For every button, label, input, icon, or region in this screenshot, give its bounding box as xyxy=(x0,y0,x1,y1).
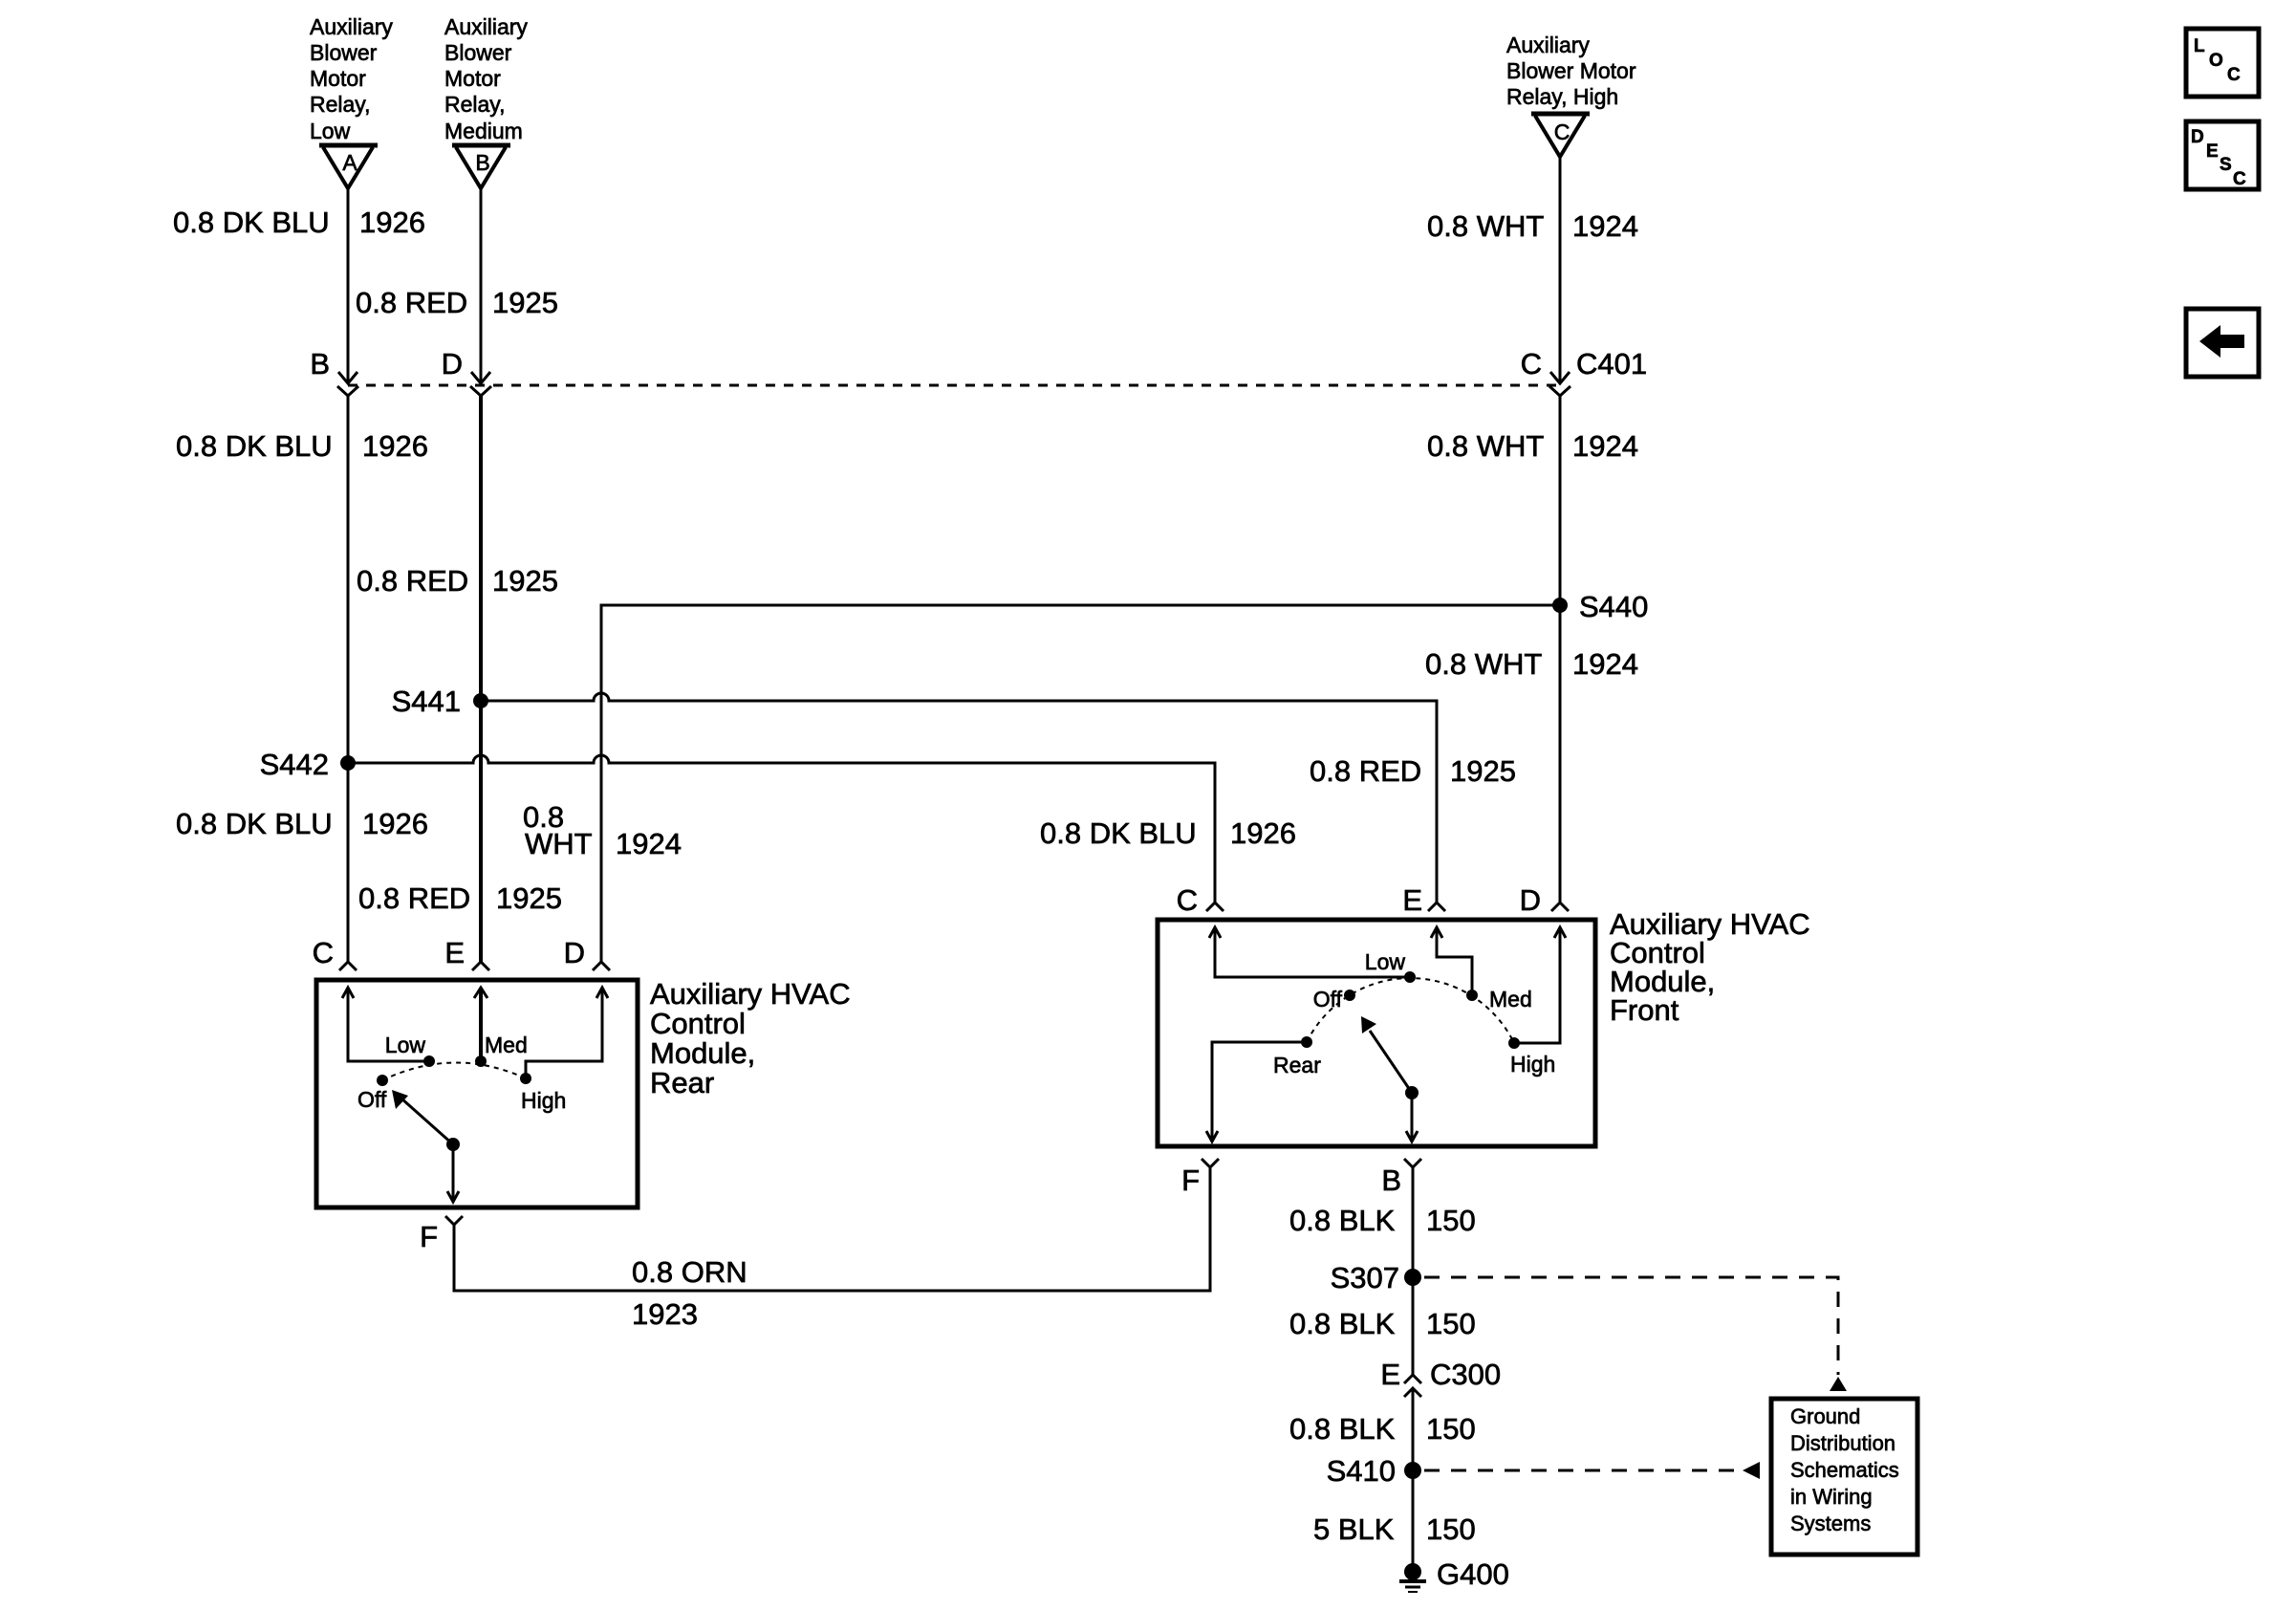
svg-text:S442: S442 xyxy=(260,748,329,781)
C401 chevron wire B xyxy=(470,386,491,396)
svg-text:Off: Off xyxy=(357,1087,387,1112)
svg-text:B: B xyxy=(310,347,330,381)
wire C segment 2 (C401 to right module pin D) xyxy=(1559,396,1562,903)
wire label 0.8 WHT 1924 xyxy=(1427,429,1638,463)
wire label 0.8 BLK 150 xyxy=(1289,1307,1476,1340)
svg-text:Auxiliary: Auxiliary xyxy=(310,14,393,39)
svg-text:Blower: Blower xyxy=(444,40,512,65)
wire label 0.8 WHT 1924 (below S440) xyxy=(1425,647,1638,681)
svg-text:C300: C300 xyxy=(1430,1358,1501,1391)
svg-text:0.8 RED: 0.8 RED xyxy=(1310,754,1421,788)
svg-text:0.8 RED: 0.8 RED xyxy=(358,881,470,915)
svg-text:Rear: Rear xyxy=(1273,1053,1321,1077)
wire A segment 2 (C401 to module pin C) xyxy=(347,396,350,962)
wire label 0.8 RED 1925 (S441 branch) xyxy=(1310,754,1516,788)
svg-text:O: O xyxy=(2209,51,2223,71)
svg-text:S410: S410 xyxy=(1327,1454,1396,1488)
Rear wire to pin F (right) xyxy=(1212,1042,1307,1141)
pin chevron B (right module) xyxy=(1404,1159,1421,1167)
svg-text:Low: Low xyxy=(310,119,351,143)
splice S410 xyxy=(1404,1462,1421,1479)
svg-text:1924: 1924 xyxy=(616,827,682,860)
wire label 0.8 RED 1925 xyxy=(356,286,558,319)
svg-text:Auxiliary: Auxiliary xyxy=(1506,33,1590,57)
pin chevron D (right module) xyxy=(1551,903,1569,911)
svg-text:C: C xyxy=(1554,120,1570,144)
pin chevron C (right module) xyxy=(1206,903,1224,911)
C401 chevron wire C xyxy=(1549,386,1570,396)
switch contact High (left) xyxy=(520,1073,531,1084)
svg-text:Auxiliary: Auxiliary xyxy=(444,14,528,39)
relay C label xyxy=(1506,33,1636,109)
svg-text:1926: 1926 xyxy=(362,807,428,840)
svg-text:G400: G400 xyxy=(1437,1557,1509,1591)
svg-text:0.8 WHT: 0.8 WHT xyxy=(1427,209,1544,243)
left module interior: pin C arrow to Low xyxy=(348,988,429,1061)
svg-text:Blower Motor: Blower Motor xyxy=(1506,58,1636,83)
svg-text:0.8 DK BLU: 0.8 DK BLU xyxy=(173,206,330,239)
pin chevron F (right module) xyxy=(1202,1159,1219,1167)
svg-text:F: F xyxy=(1181,1164,1200,1197)
svg-text:B: B xyxy=(475,150,489,175)
svg-text:D: D xyxy=(442,347,463,381)
pin chevron E (left module) xyxy=(472,962,489,970)
ground G400 xyxy=(1404,1563,1421,1580)
wire label 0.8 BLK 150 xyxy=(1289,1204,1476,1237)
splice S307 xyxy=(1404,1269,1421,1286)
wire label 0.8 WHT 1924 (stacked) xyxy=(523,800,682,860)
svg-text:0.8 DK BLU: 0.8 DK BLU xyxy=(176,429,333,463)
relay A label xyxy=(310,14,393,143)
svg-text:E: E xyxy=(444,936,465,969)
svg-text:Low: Low xyxy=(385,1033,426,1057)
svg-text:D: D xyxy=(1520,883,1541,917)
svg-text:5 BLK: 5 BLK xyxy=(1313,1512,1395,1546)
wire D branch (S440 to left module pin D) xyxy=(601,605,1560,962)
svg-text:Off: Off xyxy=(1313,987,1343,1012)
splice S440 xyxy=(1552,598,1568,613)
svg-text:1923: 1923 xyxy=(632,1297,698,1331)
svg-text:1926: 1926 xyxy=(359,206,425,239)
pin chevron E (right module) xyxy=(1428,903,1445,911)
svg-text:Relay,: Relay, xyxy=(444,92,506,117)
svg-text:E: E xyxy=(2206,141,2219,162)
svg-text:150: 150 xyxy=(1426,1412,1476,1446)
svg-text:0.8 DK BLU: 0.8 DK BLU xyxy=(176,807,333,840)
switch arc (left) xyxy=(382,1062,526,1080)
switch contact Rear (right) xyxy=(1301,1036,1312,1048)
svg-text:150: 150 xyxy=(1426,1512,1476,1546)
svg-text:F: F xyxy=(420,1220,438,1253)
wire A segment 1 (relay A to C401) xyxy=(347,188,350,381)
svg-text:Distribution: Distribution xyxy=(1790,1431,1895,1455)
left module interior: pin E arrow to Med xyxy=(479,988,483,1061)
DESC icon box xyxy=(2186,121,2259,189)
svg-text:B: B xyxy=(1381,1164,1401,1197)
svg-text:Low: Low xyxy=(1365,949,1406,974)
svg-text:C: C xyxy=(2233,169,2246,189)
switch contact Low (left) xyxy=(423,1055,435,1067)
switch wiper arrow (right) xyxy=(1405,1086,1419,1099)
wiper to pin F (left) xyxy=(452,1144,455,1201)
svg-text:1925: 1925 xyxy=(1450,754,1516,788)
svg-text:High: High xyxy=(521,1088,566,1113)
right module box xyxy=(1158,920,1595,1146)
svg-text:High: High xyxy=(1510,1052,1555,1077)
svg-text:C: C xyxy=(1177,883,1198,917)
svg-text:1925: 1925 xyxy=(492,564,558,598)
orange wire F to F xyxy=(454,1168,1210,1291)
right module name xyxy=(1610,907,1810,1027)
wiper to pin B (right) xyxy=(1411,1093,1414,1141)
wire label 0.8 DK BLU 1926 (S442 branch) xyxy=(1040,816,1296,850)
svg-text:D: D xyxy=(2191,127,2204,147)
svg-text:150: 150 xyxy=(1426,1204,1476,1237)
switch wiper arrow (left) xyxy=(446,1138,460,1151)
svg-text:0.8 WHT: 0.8 WHT xyxy=(1427,429,1544,463)
wire label 0.8 ORN 1923 xyxy=(632,1255,747,1331)
svg-text:Module,: Module, xyxy=(650,1036,755,1070)
dashed reference S307 to ground box xyxy=(1424,1277,1838,1375)
svg-text:Blower: Blower xyxy=(310,40,378,65)
svg-text:0.8 WHT: 0.8 WHT xyxy=(1425,647,1542,681)
svg-text:Med: Med xyxy=(485,1033,528,1057)
svg-text:1925: 1925 xyxy=(492,286,558,319)
relay B triangle xyxy=(452,145,510,188)
svg-text:0.8 BLK: 0.8 BLK xyxy=(1289,1204,1396,1237)
left module name xyxy=(650,977,851,1099)
svg-text:1926: 1926 xyxy=(362,429,428,463)
wire label 0.8 DK BLU 1926 (lower) xyxy=(176,807,428,840)
svg-text:C: C xyxy=(313,936,334,969)
LOC icon box xyxy=(2186,29,2259,97)
svg-text:Relay, High: Relay, High xyxy=(1506,84,1618,109)
svg-text:Med: Med xyxy=(1489,987,1532,1012)
switch contact Off (left) xyxy=(377,1075,388,1086)
relay B label xyxy=(444,14,528,143)
svg-text:C: C xyxy=(2227,65,2241,85)
relay A triangle xyxy=(319,145,378,188)
svg-text:E: E xyxy=(1380,1358,1400,1391)
svg-text:Motor: Motor xyxy=(310,66,366,91)
wire label 0.8 DK BLU 1926 xyxy=(176,429,428,463)
reference arrow (triangle left) xyxy=(1743,1462,1760,1479)
svg-text:S: S xyxy=(2220,155,2232,175)
switch contact Med (right) xyxy=(1466,990,1478,1001)
svg-text:0.8 ORN: 0.8 ORN xyxy=(632,1255,747,1289)
left module interior: pin D arrow to High xyxy=(526,988,602,1078)
svg-text:S307: S307 xyxy=(1331,1261,1399,1295)
wire B segment 1 (relay B to C401) xyxy=(480,188,483,381)
svg-text:1925: 1925 xyxy=(496,881,562,915)
dashed reference S410 to ground box xyxy=(1424,1469,1749,1472)
svg-text:Motor: Motor xyxy=(444,66,501,91)
wire label 0.8 WHT 1924 xyxy=(1427,209,1638,243)
pin chevron D (left module) xyxy=(593,962,610,970)
pin chevron C (left module) xyxy=(339,962,357,970)
switch contact High (right) xyxy=(1508,1037,1520,1049)
svg-text:0.8 RED: 0.8 RED xyxy=(357,564,468,598)
svg-text:WHT: WHT xyxy=(525,827,593,860)
arrow into C401 (wire A) xyxy=(338,372,357,383)
switch arc (right) xyxy=(1307,978,1514,1043)
svg-text:in Wiring: in Wiring xyxy=(1790,1485,1873,1509)
wire C segment 1 (relay C to C401) xyxy=(1559,157,1562,381)
svg-text:Relay,: Relay, xyxy=(310,92,371,117)
left module box xyxy=(316,980,638,1207)
wire B segment 2 (C401 to module pin E) xyxy=(479,396,483,962)
back arrow icon box xyxy=(2186,309,2259,377)
svg-text:Medium: Medium xyxy=(444,119,523,143)
switch contact Off (right) xyxy=(1344,990,1355,1001)
svg-text:1924: 1924 xyxy=(1572,429,1638,463)
wire label 0.8 DK BLU 1926 xyxy=(173,206,425,239)
splice S442 xyxy=(340,755,356,771)
svg-text:A: A xyxy=(342,150,357,175)
svg-text:0.8 RED: 0.8 RED xyxy=(356,286,467,319)
svg-text:Rear: Rear xyxy=(650,1066,714,1099)
svg-text:1924: 1924 xyxy=(1572,647,1638,681)
svg-text:D: D xyxy=(564,936,585,969)
svg-text:Ground: Ground xyxy=(1790,1404,1860,1428)
switch contact Med (left) xyxy=(475,1055,487,1067)
connector C401 dashed line xyxy=(348,384,1560,387)
wire label 0.8 RED 1925 (lower) xyxy=(358,881,562,915)
svg-text:150: 150 xyxy=(1426,1307,1476,1340)
S441 wire to right module pin E (hop over wire D) xyxy=(481,693,1437,903)
reference arrow (triangle up) xyxy=(1830,1377,1847,1391)
wire label 0.8 RED 1925 xyxy=(357,564,558,598)
splice S441 xyxy=(473,693,488,708)
svg-text:Schematics: Schematics xyxy=(1790,1458,1899,1482)
svg-text:E: E xyxy=(1402,883,1422,917)
svg-text:0.8 BLK: 0.8 BLK xyxy=(1289,1412,1396,1446)
svg-text:S440: S440 xyxy=(1579,590,1648,623)
ground distribution reference box xyxy=(1771,1399,1917,1555)
relay C triangle xyxy=(1531,114,1590,157)
S442 wire to right module pin C (hops over wires B and D) xyxy=(348,755,1215,903)
svg-text:C401: C401 xyxy=(1576,347,1647,381)
arrow into C401 (wire C) xyxy=(1550,372,1570,383)
svg-text:Systems: Systems xyxy=(1790,1512,1871,1535)
svg-text:C: C xyxy=(1521,347,1542,381)
right module interior: pin E arrow to Med xyxy=(1437,927,1472,995)
svg-text:Front: Front xyxy=(1610,993,1679,1027)
svg-text:Auxiliary HVAC: Auxiliary HVAC xyxy=(650,977,851,1011)
pin chevron F (left module) xyxy=(445,1216,463,1225)
switch contact Low (right) xyxy=(1404,971,1416,983)
svg-text:1924: 1924 xyxy=(1572,209,1638,243)
svg-text:0.8 BLK: 0.8 BLK xyxy=(1289,1307,1396,1340)
svg-text:S441: S441 xyxy=(392,685,461,718)
arrow into C401 (wire B) xyxy=(471,372,490,383)
right module interior: pin D arrow to High xyxy=(1514,927,1560,1043)
svg-text:1926: 1926 xyxy=(1230,816,1296,850)
ground wire B to G400 xyxy=(1412,1167,1415,1375)
wire label 5 BLK 150 xyxy=(1313,1512,1476,1546)
wire label 0.8 BLK 150 xyxy=(1289,1412,1476,1446)
right module interior: pin C arrow to Low xyxy=(1215,927,1410,977)
svg-text:L: L xyxy=(2194,36,2205,56)
svg-text:0.8 DK BLU: 0.8 DK BLU xyxy=(1040,816,1197,850)
svg-text:Control: Control xyxy=(650,1007,746,1040)
C401 chevron wire A xyxy=(337,386,358,396)
